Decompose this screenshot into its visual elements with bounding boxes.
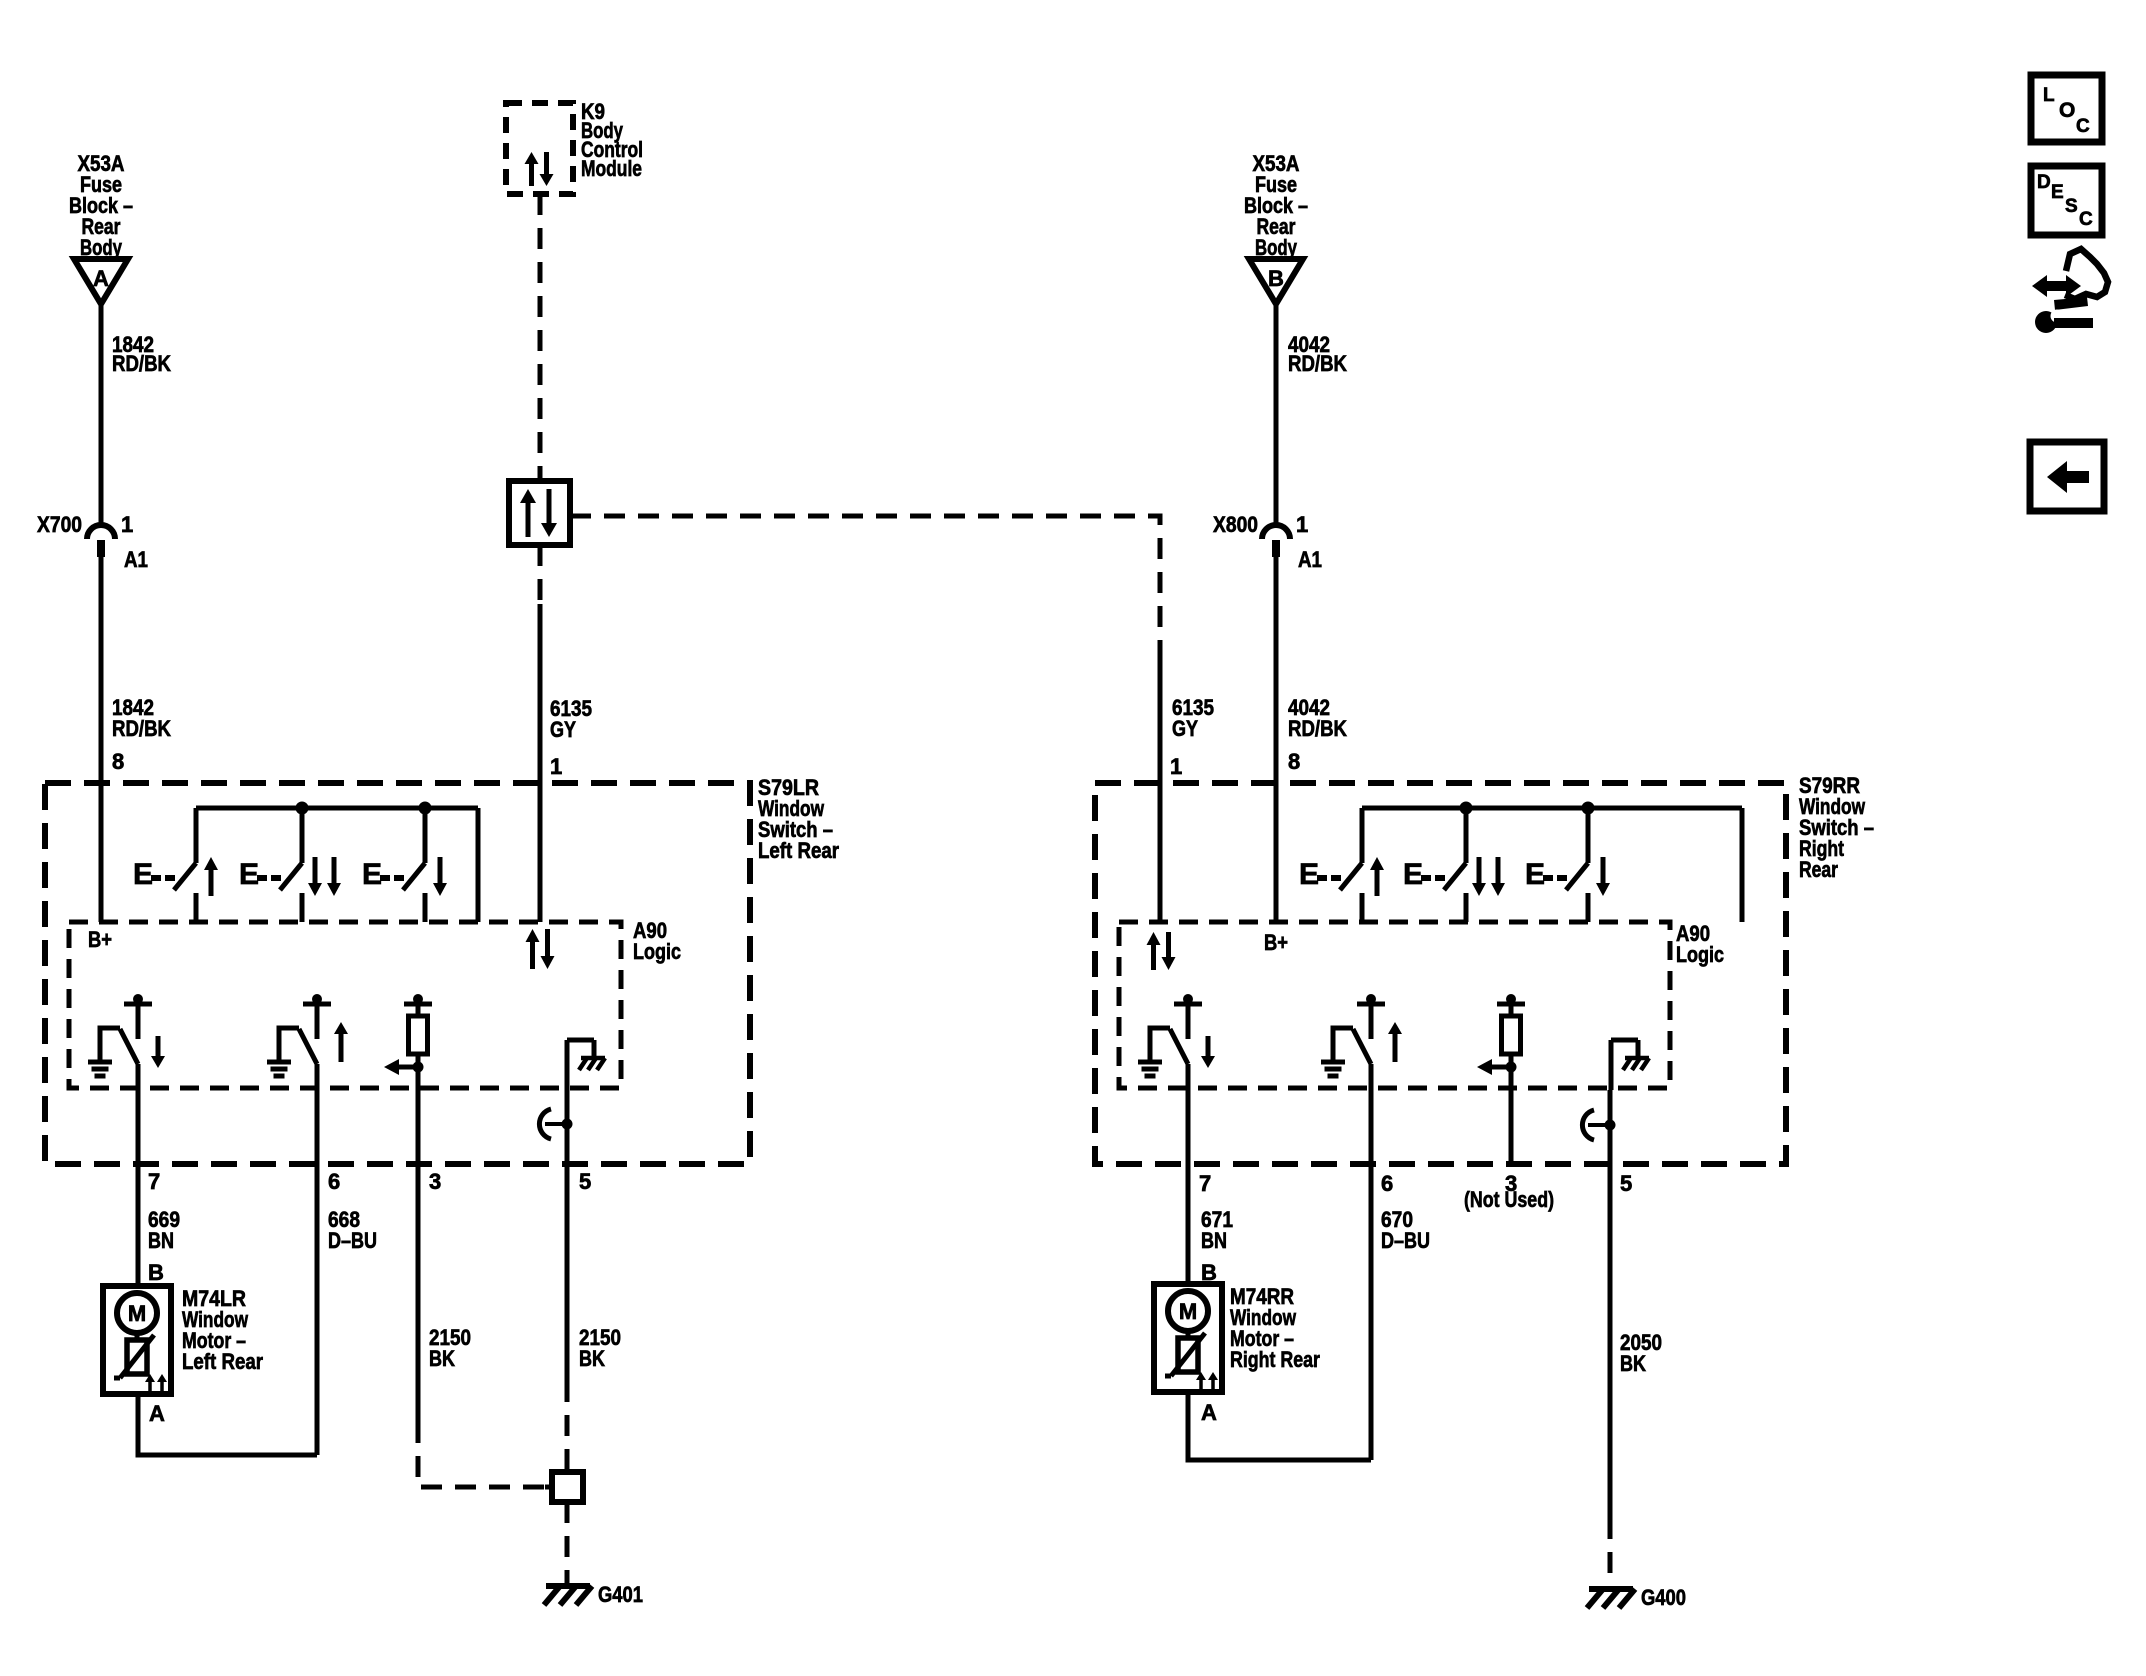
switch down x2 (left box) <box>239 808 341 922</box>
wire pin3 stub (right) <box>1509 1067 1514 1164</box>
svg-text:(Not Used): (Not Used) <box>1464 1187 1554 1212</box>
svg-text:A: A <box>93 266 109 291</box>
svg-text:5: 5 <box>1620 1171 1632 1196</box>
svg-text:6: 6 <box>1381 1171 1393 1196</box>
svg-text:G400: G400 <box>1641 1585 1686 1610</box>
pin 7 label (right) <box>1199 1171 1211 1196</box>
svg-text:BK: BK <box>429 1346 455 1371</box>
module K9 Body Control Module (dashed box) <box>506 103 573 194</box>
svg-text:BN: BN <box>1201 1228 1227 1253</box>
junction dot switch rail (right, sw2) <box>1460 802 1473 815</box>
svg-text:G401: G401 <box>598 1582 643 1607</box>
wire 1842 RD/BK lower segment <box>99 557 104 922</box>
wire 6135 GY dashed branch <box>538 545 543 606</box>
connector X700 <box>37 512 148 572</box>
svg-text:7: 7 <box>148 1169 160 1194</box>
pin A label (M74LR) <box>149 1401 165 1426</box>
svg-text:E: E <box>362 858 382 891</box>
svg-text:E: E <box>1299 858 1319 891</box>
switch down (left box) <box>362 808 447 922</box>
label 670 D-BU <box>1381 1207 1430 1253</box>
label S79LR Window Switch - Left Rear <box>758 775 839 863</box>
pin B label (M74LR) <box>148 1260 164 1285</box>
svg-text:B: B <box>148 1260 164 1285</box>
svg-text:BK: BK <box>1620 1351 1646 1376</box>
svg-text:Rear: Rear <box>1799 857 1838 882</box>
svg-text:A: A <box>1201 1400 1217 1425</box>
wire pin5 2050 BK solid (right) <box>1608 1090 1613 1520</box>
svg-text:Right Rear: Right Rear <box>1230 1347 1320 1372</box>
label S79RR Window Switch - Right Rear <box>1799 773 1874 882</box>
label 6135 GY (left) <box>550 696 592 742</box>
wire serial data dashed (K9 to interface) <box>538 194 543 481</box>
svg-text:A1: A1 <box>1298 547 1322 572</box>
pin 6 label (right) <box>1381 1171 1393 1196</box>
icon back-arrow button <box>2030 442 2104 511</box>
label A90 Logic (left) <box>633 918 681 964</box>
hook symbol (left pin5) <box>539 1109 572 1139</box>
wire pin6 (right) <box>1369 1064 1374 1460</box>
pin 8 label (S79LR) <box>112 749 124 774</box>
switch up (right box) <box>1299 808 1384 922</box>
svg-text:E: E <box>2051 182 2064 203</box>
switch S79LR outer box <box>45 783 750 1164</box>
svg-text:1: 1 <box>1296 512 1308 537</box>
wire motor A to pin6 (left) <box>138 1394 317 1455</box>
node B+ rail (left) <box>196 806 478 811</box>
ground G401 <box>544 1582 643 1607</box>
pin 8 label (S79RR) <box>1288 749 1300 774</box>
svg-text:M: M <box>1179 1299 1197 1324</box>
contact chassis ref (left pin5) <box>567 1040 605 1090</box>
contact chassis ref (right pin5) <box>1611 1040 1649 1090</box>
pin A label (M74RR) <box>1201 1400 1217 1425</box>
label 1842 RD/BK (upper) <box>112 332 171 376</box>
svg-text:1: 1 <box>550 754 562 779</box>
pin 1 label (S79LR) <box>550 754 562 779</box>
svg-text:RD/BK: RD/BK <box>112 351 171 376</box>
junction dot switch rail (right, sw3) <box>1582 802 1595 815</box>
label 2150 BK (pin3) <box>429 1325 471 1371</box>
hook symbol (right pin5) <box>1582 1110 1615 1140</box>
icon DESC button <box>2031 166 2102 235</box>
label 2150 BK (pin5) <box>579 1325 621 1371</box>
svg-text:E: E <box>239 858 259 891</box>
pin 5 label (right) <box>1620 1171 1632 1196</box>
svg-text:BK: BK <box>579 1346 605 1371</box>
label A90 Logic (right) <box>1676 921 1724 967</box>
connector X53A label (left fuse block) <box>69 151 133 260</box>
motor M74LR Window Motor - Left Rear <box>103 1286 263 1394</box>
svg-text:M: M <box>128 1301 146 1326</box>
wire 4042 RD/BK upper segment <box>1274 302 1279 527</box>
A90 up/down arrows (left) <box>526 929 555 969</box>
wire rail to logic (right) <box>1740 808 1745 922</box>
svg-text:8: 8 <box>112 749 124 774</box>
svg-text:Left Rear: Left Rear <box>758 838 839 863</box>
svg-text:E: E <box>133 858 153 891</box>
svg-text:C: C <box>2076 116 2090 137</box>
svg-text:D: D <box>2037 172 2051 193</box>
label 668 D-BU <box>328 1207 377 1253</box>
pin B label (M74RR) <box>1201 1260 1217 1285</box>
pin 3 label (left) <box>429 1169 441 1194</box>
wire 1842 RD/BK upper segment <box>99 302 104 527</box>
wire pin7 to motor B (right) <box>1186 1064 1191 1284</box>
module A90 Logic box (left) <box>69 922 621 1088</box>
contact down-drive (left pin7) <box>88 994 165 1076</box>
connector triangle B (X53A fuse block) <box>1249 259 1303 304</box>
wire rail to logic (left) <box>476 808 481 922</box>
wire 6135 GY right segment <box>1158 651 1163 922</box>
pin 1 label (S79RR) <box>1170 754 1182 779</box>
pin 6 label (left) <box>328 1169 340 1194</box>
wire pin5 dashed (right) <box>1608 1518 1613 1589</box>
svg-text:B: B <box>1268 266 1284 291</box>
switch up (left box) <box>133 808 218 922</box>
label 4042 RD/BK (upper) <box>1288 332 1347 376</box>
pin 3 label (right) <box>1505 1171 1517 1196</box>
svg-text:6: 6 <box>328 1169 340 1194</box>
svg-text:X800: X800 <box>1213 512 1258 537</box>
wire 6135 GY left segment <box>538 604 543 922</box>
svg-text:Logic: Logic <box>1676 942 1724 967</box>
wire pin3 2150 BK solid (left) <box>416 1067 421 1424</box>
wire pin5 2150 BK solid (left) <box>565 1090 570 1383</box>
svg-text:BN: BN <box>148 1228 174 1253</box>
switch S79RR outer box <box>1095 783 1786 1164</box>
label 6135 GY (right) <box>1172 695 1214 741</box>
svg-text:1: 1 <box>121 512 133 537</box>
label B+ (right) <box>1264 930 1288 955</box>
svg-text:GY: GY <box>550 717 576 742</box>
module A90 Logic box (right) <box>1119 922 1670 1088</box>
wire motor A to pin6 (right) <box>1188 1392 1371 1460</box>
svg-text:L: L <box>2043 85 2055 106</box>
svg-text:RD/BK: RD/BK <box>1288 351 1347 376</box>
label K9 Body Control Module <box>581 99 643 181</box>
junction dot switch rail (left, sw2) <box>296 802 309 815</box>
label B+ (left) <box>88 927 112 952</box>
svg-text:7: 7 <box>1199 1171 1211 1196</box>
wire pin5 dashed upper (left) <box>565 1381 570 1472</box>
label 4042 RD/BK (lower) <box>1288 695 1347 741</box>
svg-text:B+: B+ <box>1264 930 1288 955</box>
svg-text:Logic: Logic <box>633 939 681 964</box>
label 1842 RD/BK (lower) <box>112 695 171 741</box>
switch down (right box) <box>1525 808 1610 922</box>
label 2050 BK <box>1620 1330 1662 1376</box>
icon related-repair (hand/wrench) <box>2032 249 2108 333</box>
svg-text:3: 3 <box>429 1169 441 1194</box>
contact down-drive (right pin7) <box>1138 994 1215 1076</box>
connector triangle A (X53A fuse block) <box>74 259 128 304</box>
wire pin3 dashed (left) <box>418 1422 547 1487</box>
svg-text:O: O <box>2059 99 2075 122</box>
svg-text:S: S <box>2065 196 2078 217</box>
motor M74RR Window Motor - Right Rear <box>1154 1284 1320 1392</box>
svg-text:Left Rear: Left Rear <box>182 1349 263 1374</box>
svg-text:5: 5 <box>579 1169 591 1194</box>
svg-text:A1: A1 <box>124 547 148 572</box>
contact up-drive (right pin6) <box>1321 994 1402 1076</box>
interface up/down arrows <box>520 489 557 537</box>
A90 up/down arrows (right) <box>1147 932 1176 970</box>
pin 7 label (left) <box>148 1169 160 1194</box>
contact sense resistor (right pin3) <box>1477 994 1525 1075</box>
interface box (up/down) <box>509 481 570 545</box>
svg-text:A: A <box>149 1401 165 1426</box>
connector X800 <box>1213 512 1322 572</box>
K9 up/down arrows <box>525 152 554 186</box>
wire serial data dashed horizontal <box>570 516 1160 653</box>
contact up-drive (left pin6) <box>267 994 348 1076</box>
svg-text:D–BU: D–BU <box>328 1228 377 1253</box>
svg-text:E: E <box>1403 858 1423 891</box>
svg-text:Module: Module <box>581 156 642 181</box>
svg-text:1: 1 <box>1170 754 1182 779</box>
icon LOC button <box>2031 75 2102 142</box>
svg-text:D–BU: D–BU <box>1381 1228 1430 1253</box>
pin 5 label (left) <box>579 1169 591 1194</box>
svg-text:X700: X700 <box>37 512 82 537</box>
junction dot switch rail (left, sw3) <box>419 802 432 815</box>
svg-text:E: E <box>1525 858 1545 891</box>
node B+ rail (right) <box>1362 806 1742 811</box>
ground G400 <box>1587 1585 1686 1610</box>
svg-text:B+: B+ <box>88 927 112 952</box>
label 671 BN <box>1201 1207 1233 1253</box>
svg-text:RD/BK: RD/BK <box>112 716 171 741</box>
svg-text:C: C <box>2079 209 2093 230</box>
svg-text:RD/BK: RD/BK <box>1288 716 1347 741</box>
splice joint square (left) <box>545 1472 583 1502</box>
svg-text:8: 8 <box>1288 749 1300 774</box>
wire pin5 dashed lower (left) <box>565 1502 570 1586</box>
contact sense resistor (left pin3) <box>384 994 432 1075</box>
wire 4042 RD/BK lower segment <box>1274 557 1279 922</box>
wire pin6 (left) <box>315 1064 320 1455</box>
switch down x2 (right box) <box>1403 808 1505 922</box>
connector X53A label (right fuse block) <box>1244 151 1308 260</box>
label 669 BN <box>148 1207 180 1253</box>
label Not Used <box>1464 1187 1554 1212</box>
wire pin7 to motor B (left) <box>136 1064 141 1286</box>
svg-text:GY: GY <box>1172 716 1198 741</box>
